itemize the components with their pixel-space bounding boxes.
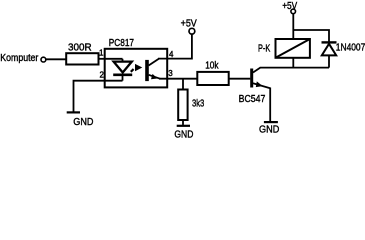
resistor R3 3k3: [178, 90, 204, 121]
wire +5V branch to diode top: [293, 30, 329, 42]
power +5V (right): [282, 0, 297, 14]
wire R1 to U1 pin1: [99, 58, 106, 60]
svg-text:+5V: +5V: [181, 17, 197, 29]
terminal circle (Komputer input): [41, 57, 46, 62]
LED D1 inside U1: [105, 59, 133, 81]
svg-text:GND: GND: [174, 128, 193, 138]
wire relay bottom to collector net: [292, 58, 294, 68]
relay K1 coil P-K: [258, 39, 310, 58]
svg-text:3: 3: [168, 69, 173, 78]
resistor R2 10k: [197, 59, 228, 85]
wire emitter to ground: [269, 88, 271, 122]
ground GND1: [67, 112, 94, 128]
phototransistor inside U1: [145, 59, 160, 82]
wire +5V to relay top: [292, 14, 294, 39]
ground GND2: [174, 126, 193, 141]
wire U1 pin4 to +5V: [158, 34, 192, 59]
svg-text:GND: GND: [259, 124, 280, 136]
svg-text:2: 2: [100, 71, 105, 80]
optocoupler U1 body box: [105, 49, 168, 88]
resistor R1 300R: [66, 41, 98, 64]
svg-text:Komputer: Komputer: [0, 52, 38, 64]
wire junction down to R3 3k3: [182, 79, 184, 90]
transistor Q1 BC547: [239, 68, 271, 105]
diode D2 1N4007: [322, 42, 365, 68]
power +5V (middle): [181, 17, 197, 34]
ground GND3: [259, 122, 280, 136]
svg-text:BC547: BC547: [239, 93, 266, 105]
svg-text:GND: GND: [73, 116, 94, 128]
wire U1 pin3 to R2: [159, 78, 198, 80]
wire U1 pin2 to ground: [74, 81, 105, 112]
svg-text:P-K: P-K: [258, 43, 270, 55]
svg-text:10k: 10k: [205, 59, 219, 71]
svg-text:1: 1: [99, 48, 104, 57]
svg-text:300R: 300R: [68, 41, 92, 53]
svg-text:3k3: 3k3: [192, 98, 204, 110]
wire collector net to relay and diode: [260, 67, 329, 69]
wire input to R1: [46, 58, 67, 60]
wire R2 to Q1 base: [229, 78, 251, 80]
wire R3 to ground: [182, 120, 184, 125]
svg-text:1N4007: 1N4007: [336, 42, 365, 54]
svg-text:PC817: PC817: [109, 37, 134, 49]
light arrow symbol inside U1: [131, 64, 143, 72]
